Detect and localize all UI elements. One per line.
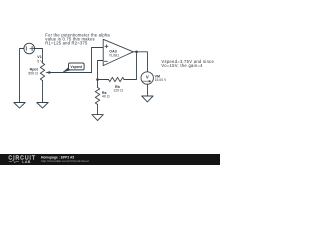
svg-text:120 Ω: 120 Ω: [113, 88, 123, 92]
svg-text:R1=125 and R2=375: R1=125 and R2=375: [45, 41, 88, 46]
svg-text:500 Ω: 500 Ω: [28, 72, 38, 76]
svg-text:LAB: LAB: [22, 160, 30, 164]
svg-text:5 V: 5 V: [37, 59, 43, 63]
svg-text:http:​//circuitlab.com/c/7dxm2: http:​//circuitlab.com/c/7dxm2vhesd: [41, 159, 89, 163]
svg-text:TL081: TL081: [109, 53, 119, 57]
svg-text:V: V: [146, 75, 149, 80]
svg-text:Vo=15V, the gain=4: Vo=15V, the gain=4: [161, 63, 203, 68]
svg-text:40 Ω: 40 Ω: [102, 95, 110, 99]
svg-text:15.00 V: 15.00 V: [155, 78, 167, 82]
svg-text:Vspeed: Vspeed: [70, 65, 82, 69]
